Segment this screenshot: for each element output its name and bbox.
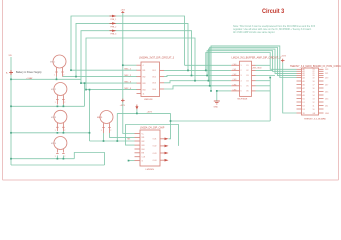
- wire C1 right leg to U1 row: [63, 76, 138, 78]
- svg-text:MIC3: MIC3: [51, 117, 57, 119]
- junction J4 at (76,76.6): [75, 76, 77, 78]
- U4 right pins: [319, 68, 324, 70]
- svg-text:17: 17: [313, 84, 315, 86]
- svg-text:PRB_1: PRB_1: [111, 19, 117, 21]
- svg-text:LM324N: LM324N: [144, 99, 153, 101]
- svg-text:OU4: OU4: [153, 160, 157, 162]
- svg-text:M5: M5: [128, 139, 131, 141]
- junction J11 at (11,106.3): [10, 105, 12, 107]
- wire U2 out row 4: [256, 80, 271, 82]
- junction J28 at (216.8,90.9): [216, 90, 218, 92]
- U2 left pins: [231, 64, 239, 66]
- svg-text:GND: GND: [325, 113, 330, 115]
- wire +3V3 vertical: [122, 13, 124, 98]
- wire U2 out row 5: [256, 85, 271, 87]
- wire C2 right link: [62, 105, 64, 107]
- wire v170.5 to U3 out1: [169, 113, 171, 138]
- wire row R1: [185, 64, 232, 66]
- svg-text:2: 2: [110, 130, 111, 132]
- wire U2 wrap loop 2: [207, 51, 296, 76]
- junction J14 at (11,132.8): [10, 132, 12, 134]
- svg-text:D2: D2: [303, 105, 305, 107]
- battery supply symbol: [6, 55, 42, 80]
- supply +3V3 cross (bottom of vertical): [121, 99, 125, 103]
- svg-text:OU2: OU2: [153, 146, 157, 148]
- svg-text:D3: D3: [303, 109, 305, 111]
- wire C4 loop step: [74, 153, 104, 166]
- wire v117.3: [116, 113, 118, 141]
- wire row U1 in4: [86, 89, 137, 91]
- junction J26 at (209.7,85.8): [209, 85, 211, 87]
- svg-text:All 4 MIC AMP circuits use sam: All 4 MIC AMP circuits use same layout: [233, 31, 275, 34]
- junction J10 at (63.4,106.3): [63, 105, 65, 107]
- svg-text:MIC_4: MIC_4: [125, 88, 132, 90]
- junction J34 at (128.5,160.6): [128, 160, 130, 162]
- svg-text:11: 11: [313, 105, 315, 107]
- svg-text:12: 12: [313, 102, 315, 104]
- svg-text:A7: A7: [303, 87, 305, 90]
- junction J8 at (89.5,89.6): [89, 89, 91, 91]
- svg-text:O3: O3: [246, 75, 249, 77]
- wire U1 pin1 supply tap: [123, 64, 137, 66]
- svg-text:1: 1: [55, 130, 56, 132]
- svg-text:IN1: IN1: [142, 137, 145, 139]
- wire U1 out4 to row R5: [164, 86, 231, 89]
- svg-text:1: 1: [55, 156, 56, 158]
- junction J32 at (103.5,141): [103, 140, 105, 142]
- svg-text:2: 2: [63, 75, 64, 77]
- wire U3 pin8 stub: [129, 160, 135, 162]
- svg-text:CH1: CH1: [233, 69, 237, 71]
- wire U3 top loop: [126, 125, 179, 146]
- svg-text:4: 4: [241, 80, 242, 82]
- svg-text:A6: A6: [303, 83, 305, 86]
- svg-text:A5: A5: [303, 80, 305, 83]
- wire U2 wrap loop 1: [206, 53, 297, 71]
- svg-text:O4: O4: [246, 80, 249, 82]
- wire U2 wrap loop 3: [208, 49, 296, 81]
- frame left border: [3, 0, 339, 180]
- junction J29 at (270.2,77.5): [269, 77, 271, 79]
- svg-text:D23: D23: [325, 69, 328, 71]
- microphone MIC2: [54, 83, 67, 105]
- svg-text:19: 19: [313, 77, 315, 79]
- svg-text:CH2: CH2: [233, 74, 237, 76]
- svg-text:CH4: CH4: [233, 84, 237, 86]
- wire C5 right leg drop: [110, 133, 135, 137]
- svg-text:OU1: OU1: [152, 70, 156, 72]
- svg-text:D13: D13: [325, 98, 328, 100]
- supply cross above U3: [135, 106, 138, 109]
- junction J3 at (71,70.2): [70, 69, 72, 71]
- svg-text:GND: GND: [214, 107, 219, 109]
- svg-text:OU2: OU2: [152, 76, 156, 78]
- U2 pin names: [233, 64, 249, 93]
- svg-text:OU3: OU3: [152, 83, 156, 85]
- wire row U1 in1: [71, 69, 137, 71]
- svg-text:2: 2: [64, 130, 65, 132]
- svg-text:A4: A4: [303, 76, 305, 79]
- svg-text:MIC1: MIC1: [50, 62, 56, 64]
- svg-text:MIC_3: MIC_3: [125, 82, 132, 84]
- wire U2 out row 6: [256, 90, 271, 92]
- note text block: [233, 25, 316, 34]
- svg-text:A8: A8: [303, 90, 305, 93]
- svg-text:18: 18: [313, 81, 315, 83]
- svg-text:IN3: IN3: [142, 145, 145, 147]
- wire C1 left leg drop: [56, 77, 58, 80]
- U3 pin names: [142, 133, 157, 162]
- svg-text:D1: D1: [303, 102, 305, 104]
- svg-text:A9: A9: [303, 94, 305, 97]
- U3 left pins: [135, 133, 141, 135]
- wire row to U3 pin3: [90, 140, 135, 142]
- svg-text:1: 1: [241, 65, 242, 67]
- microphone MIC4: [54, 137, 67, 154]
- svg-text:4: 4: [143, 65, 144, 67]
- gnd below U2: [214, 101, 220, 104]
- wire U2 gnd drop: [216, 91, 218, 101]
- svg-text:11: 11: [143, 93, 145, 95]
- svg-text:+/ BAT: +/ BAT: [26, 77, 33, 80]
- svg-text:IN4: IN4: [143, 89, 146, 91]
- svg-text:LM324_DV_DIP_CHIP: LM324_DV_DIP_CHIP: [140, 127, 165, 130]
- junction J6 at (86,89.6): [85, 89, 87, 91]
- svg-text:Battery in Power Supply: Battery in Power Supply: [16, 71, 42, 74]
- junction J13 at (63.4,132.8): [63, 132, 65, 134]
- junction J1 at (56.5,79.3): [56, 78, 58, 80]
- svg-text:16: 16: [313, 88, 315, 90]
- svg-text:IN3: IN3: [143, 83, 146, 85]
- svg-text:15: 15: [313, 91, 315, 93]
- svg-text:PRB_3: PRB_3: [111, 34, 117, 36]
- junction J31 at (136.9,113.4): [136, 113, 138, 115]
- junction J18 at (11,158.7): [10, 158, 12, 160]
- U4 pin names: [303, 68, 330, 115]
- svg-text:D17: D17: [325, 84, 328, 86]
- wire battery row C4: [11, 158, 74, 160]
- svg-text:Circuit 3: Circuit 3: [262, 9, 285, 15]
- svg-text:OU1: OU1: [153, 139, 157, 141]
- wire U2 out row 2: [256, 69, 273, 71]
- wire U1 out1 to row R2: [164, 69, 231, 71]
- wire battery rail vertical: [10, 57, 12, 165]
- junction J16 at (57.4,158.7): [57, 158, 59, 160]
- microphone MIC5: [100, 111, 113, 134]
- adc U2: [231, 61, 255, 96]
- svg-text:6: 6: [241, 91, 242, 93]
- svg-text:2: 2: [64, 156, 65, 158]
- svg-text:O5: O5: [246, 86, 249, 88]
- wire battery row C2: [11, 105, 85, 107]
- svg-text:+3V3_VDD: +3V3_VDD: [252, 68, 263, 70]
- U3 output arrows: [165, 138, 169, 162]
- supply arrow probe 1: [110, 15, 117, 32]
- svg-text:MIC5: MIC5: [97, 117, 103, 119]
- junction J30 at (170.5,121): [170, 120, 172, 122]
- svg-text:TEENSY_3.2_MAIN_BOARD_IO_PINS_: TEENSY_3.2_MAIN_BOARD_IO_PINS_CIRCUIT_3: [290, 65, 341, 68]
- svg-text:13: 13: [313, 98, 315, 100]
- wire top loop B: [76, 23, 188, 76]
- svg-text:IN2: IN2: [143, 76, 146, 78]
- svg-text:5: 5: [241, 86, 242, 88]
- wire U2 out bus down to U3: [269, 78, 271, 122]
- wire C5 left leg drop: [103, 133, 105, 141]
- wire supply rail y113.4: [117, 112, 170, 114]
- net labels on U1 input rows: [125, 69, 132, 90]
- wire U2 out row 3: [256, 75, 276, 77]
- junction J25 at (208.4,80.7): [208, 80, 210, 82]
- junction J27 at (211,90.9): [210, 90, 212, 92]
- supply +3V3 top tick: [121, 11, 124, 13]
- wire U2 wrap loop 5: [211, 46, 297, 91]
- junction J12 at (57.4,132.8): [57, 132, 59, 134]
- U2 right pins: [252, 64, 256, 66]
- svg-text:PRB_2: PRB_2: [111, 26, 117, 28]
- U4 left pins: [297, 69, 324, 113]
- wire battery row C1: [11, 78, 81, 80]
- junction J21 at (191.5,75.5): [191, 75, 193, 77]
- wire supply 3V3 right drop: [283, 63, 297, 114]
- junction J33 at (117.3,141): [116, 140, 118, 142]
- svg-text:O2: O2: [246, 70, 249, 72]
- U1 right pins: [160, 69, 165, 71]
- svg-text:B+: B+: [6, 73, 8, 75]
- wire row U1 in3: [81, 82, 137, 84]
- junction J2 at (11,79.3): [10, 78, 12, 80]
- svg-text:1: 1: [55, 102, 56, 104]
- svg-text:O6: O6: [246, 91, 249, 93]
- wire U2 out row 1: [256, 64, 271, 66]
- svg-text:LM324N: LM324N: [146, 169, 155, 171]
- junction J24 at (207.1,75.5): [206, 75, 208, 77]
- svg-text:MCP3008: MCP3008: [238, 99, 249, 101]
- svg-text:D0: D0: [303, 98, 305, 100]
- junction J22 at (195,80.7): [194, 80, 196, 82]
- svg-text:2: 2: [241, 70, 242, 72]
- microphone MIC1: [53, 55, 66, 77]
- svg-text:+3V3: +3V3: [121, 10, 125, 12]
- junction J7 at (84.5,83.1): [84, 82, 86, 84]
- wire top loop A: [71, 16, 185, 70]
- wire 3V3 arrow stem: [136, 109, 138, 113]
- junction J23 at (205.8,70.4): [205, 70, 207, 72]
- svg-text:MIC4: MIC4: [51, 143, 57, 145]
- U3 right pins: [160, 138, 165, 140]
- svg-text:D11: D11: [325, 105, 328, 107]
- svg-text:1: 1: [101, 130, 102, 132]
- wire battery row C3: [11, 132, 90, 134]
- svg-text:D21: D21: [325, 73, 328, 75]
- svg-text:CH3: CH3: [233, 79, 237, 81]
- svg-text:+3V3: +3V3: [120, 105, 126, 107]
- svg-text:O1: O1: [246, 65, 249, 67]
- wire U1 out2 to row R3: [164, 76, 231, 77]
- junction J20 at (188,70.4): [187, 70, 189, 72]
- svg-text:+3V3: +3V3: [147, 112, 153, 114]
- svg-text:2: 2: [64, 102, 65, 104]
- svg-text:MIC2: MIC2: [51, 89, 57, 91]
- svg-text:MIC_1: MIC_1: [125, 69, 132, 71]
- svg-text:MIC_2: MIC_2: [125, 75, 132, 77]
- wire ground rail bottom: [11, 164, 105, 166]
- svg-text:OU3: OU3: [153, 153, 157, 155]
- junction J19 at (122.8,65.2): [122, 64, 124, 66]
- wire top loop D: [86, 38, 195, 90]
- frame bottom border: [3, 179, 339, 181]
- svg-text:CH5: CH5: [233, 89, 237, 91]
- svg-text:OU4: OU4: [152, 89, 156, 91]
- wire +3V3 down to U3 pin1: [123, 98, 135, 134]
- frame right border: [338, 0, 340, 180]
- shift register U3: [135, 130, 165, 166]
- svg-text:10: 10: [313, 109, 315, 111]
- U1 left pins: [137, 64, 142, 66]
- wire U1 out3 to row R4: [164, 81, 231, 83]
- junction J17 at (63.4,158.7): [63, 158, 65, 160]
- wire C4 leg drops: [56, 156, 58, 159]
- svg-text:D19: D19: [325, 77, 328, 79]
- svg-text:LM324N_3V3T_DIP_CIRCUIT_3: LM324N_3V3T_DIP_CIRCUIT_3: [139, 57, 175, 60]
- junction J9 at (57.4,106.3): [57, 105, 59, 107]
- wire top loop C: [81, 31, 192, 83]
- svg-text:TEENSY_3.2_BOARD: TEENSY_3.2_BOARD: [304, 118, 326, 121]
- svg-text:3: 3: [241, 75, 242, 77]
- microphone MIC3: [54, 110, 67, 131]
- svg-text:IN4: IN4: [142, 149, 145, 151]
- svg-text:1: 1: [54, 75, 55, 77]
- U1 pin names: [143, 65, 156, 95]
- svg-text:CH0: CH0: [233, 64, 237, 66]
- svg-text:LM124_3V3_BUFFER_AMP_DIP_CIRCU: LM124_3V3_BUFFER_AMP_DIP_CIRCUIT_3: [232, 57, 282, 60]
- wire C3 right link: [62, 131, 64, 133]
- wire U2 wrap loop 4: [210, 47, 297, 86]
- svg-text:IN2: IN2: [142, 141, 145, 143]
- supply cross right: [281, 59, 285, 63]
- svg-text:14: 14: [313, 95, 315, 97]
- junction J15 at (89.5,132.8): [89, 132, 91, 134]
- svg-text:D15: D15: [325, 91, 328, 93]
- wire row R6: [217, 90, 231, 92]
- op-amp U1: [137, 62, 165, 97]
- connector U4 (teensy): [302, 68, 319, 115]
- svg-text:IN1: IN1: [143, 70, 146, 72]
- junction J5 at (81,83.1): [80, 82, 82, 84]
